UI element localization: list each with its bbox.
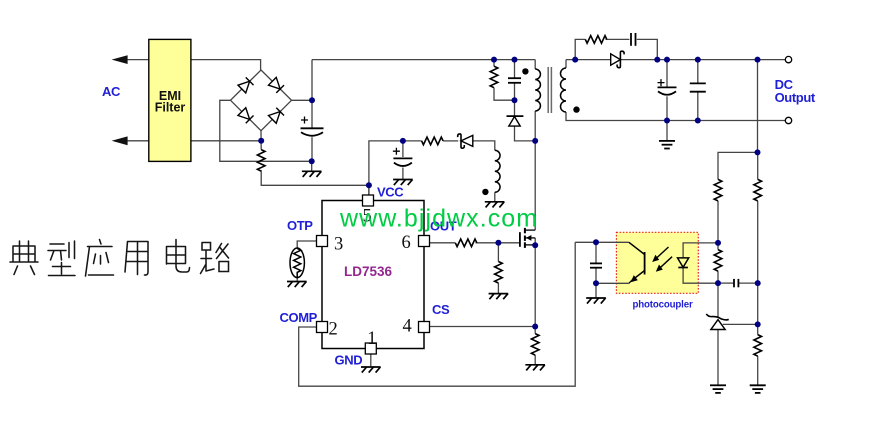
svg-text:LD7536: LD7536 bbox=[344, 264, 393, 279]
svg-text:4: 4 bbox=[403, 316, 412, 336]
svg-text:AC: AC bbox=[102, 84, 121, 99]
svg-text:CS: CS bbox=[432, 302, 450, 317]
svg-text:photocoupler: photocoupler bbox=[633, 299, 693, 310]
svg-text:Output: Output bbox=[775, 90, 816, 105]
svg-text:COMP: COMP bbox=[280, 310, 318, 325]
svg-text:GND: GND bbox=[335, 353, 363, 368]
svg-text:1: 1 bbox=[367, 329, 376, 349]
svg-text:OTP: OTP bbox=[287, 218, 313, 233]
svg-text:www.bjjdwx.com: www.bjjdwx.com bbox=[339, 204, 538, 232]
svg-text:VCC: VCC bbox=[377, 185, 404, 200]
svg-text:2: 2 bbox=[329, 320, 338, 340]
svg-text:6: 6 bbox=[402, 233, 411, 253]
svg-text:Filter: Filter bbox=[155, 101, 186, 115]
svg-text:3: 3 bbox=[334, 234, 343, 254]
